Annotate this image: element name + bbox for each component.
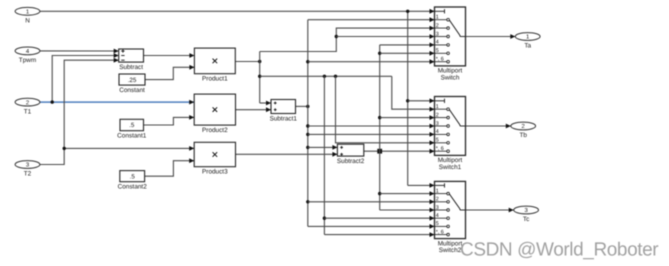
svg-text:Switch1: Switch1 bbox=[439, 164, 462, 171]
svg-text:CSDN @World_Roboter: CSDN @World_Roboter bbox=[460, 240, 659, 261]
svg-text:Product2: Product2 bbox=[202, 127, 228, 134]
svg-text:Switch: Switch bbox=[441, 75, 460, 82]
svg-text:Product3: Product3 bbox=[202, 169, 228, 176]
svg-text:T1: T1 bbox=[24, 108, 32, 115]
svg-text:Subtract1: Subtract1 bbox=[270, 115, 298, 122]
svg-text:.25: .25 bbox=[128, 77, 137, 84]
svg-text:Tc: Tc bbox=[523, 216, 530, 223]
svg-text:Ta: Ta bbox=[524, 43, 531, 50]
svg-text:Tb: Tb bbox=[519, 132, 527, 139]
svg-text:T2: T2 bbox=[24, 171, 32, 178]
svg-text:N: N bbox=[25, 18, 30, 25]
svg-text:Subtract: Subtract bbox=[119, 64, 143, 71]
svg-text:Subtract2: Subtract2 bbox=[337, 158, 365, 165]
svg-text:Constant1: Constant1 bbox=[117, 133, 147, 140]
svg-text:Product1: Product1 bbox=[202, 76, 228, 83]
svg-text:Constant2: Constant2 bbox=[118, 184, 148, 191]
svg-text:Tpwm: Tpwm bbox=[19, 57, 36, 64]
svg-text:Constant: Constant bbox=[119, 87, 145, 94]
svg-text:2: 2 bbox=[26, 99, 29, 106]
svg-text:2: 2 bbox=[522, 123, 525, 130]
svg-text:.5: .5 bbox=[130, 173, 136, 180]
svg-text:Switch2: Switch2 bbox=[439, 247, 462, 254]
svg-text:1: 1 bbox=[526, 34, 529, 41]
svg-text:1: 1 bbox=[26, 9, 29, 16]
svg-text:.5: .5 bbox=[129, 122, 135, 129]
